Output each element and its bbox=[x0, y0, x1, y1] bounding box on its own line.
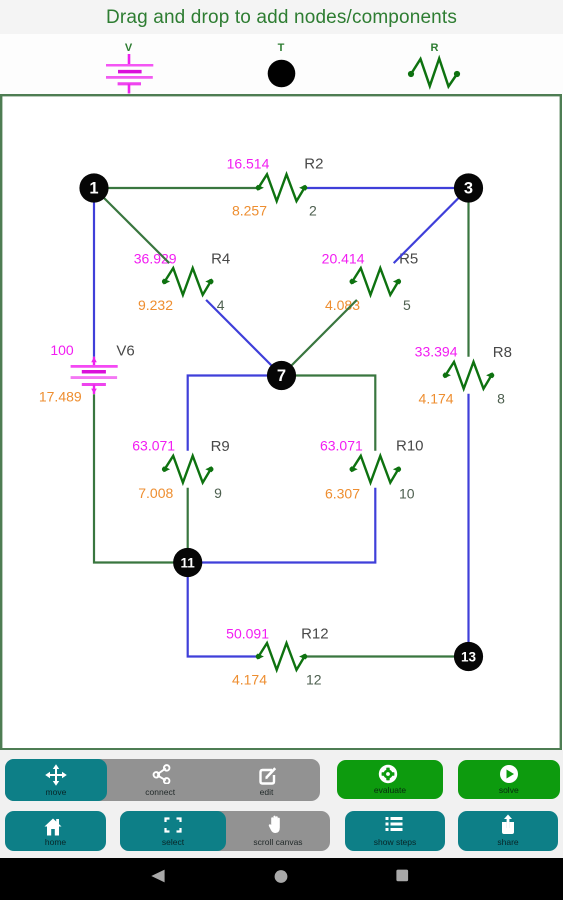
circuit canvas bbox=[0, 94, 563, 750]
button solve bbox=[458, 760, 560, 799]
wire node7 to R9 (blue) bbox=[188, 376, 282, 451]
svg-text:8: 8 bbox=[497, 390, 505, 406]
svg-text:11: 11 bbox=[181, 556, 196, 571]
svg-text:2: 2 bbox=[309, 203, 317, 219]
svg-text:1: 1 bbox=[89, 180, 98, 198]
button connect bbox=[107, 759, 213, 801]
nav home bbox=[275, 870, 288, 883]
nav recents bbox=[396, 870, 408, 882]
wire R2 to node3 (blue) bbox=[305, 187, 469, 189]
button scroll canvas bbox=[226, 811, 330, 852]
wire node11 to R12 (blue) bbox=[188, 563, 258, 657]
svg-text:100: 100 bbox=[50, 342, 74, 358]
svg-text:5: 5 bbox=[403, 297, 411, 313]
svg-text:10: 10 bbox=[399, 485, 415, 501]
svg-text:13: 13 bbox=[461, 650, 477, 665]
svg-text:33.394: 33.394 bbox=[415, 343, 458, 359]
android navigation bar bbox=[0, 858, 563, 900]
wire R8 to node13 (blue) bbox=[467, 394, 469, 657]
svg-text:R2: R2 bbox=[304, 156, 323, 173]
toolbar bbox=[0, 750, 563, 858]
svg-text:V6: V6 bbox=[116, 343, 134, 360]
svg-text:4.174: 4.174 bbox=[419, 390, 454, 406]
wire R5 to node7 (green diagonal) bbox=[282, 300, 357, 376]
button home bbox=[5, 811, 106, 852]
button select bbox=[120, 811, 226, 852]
svg-text:63.071: 63.071 bbox=[320, 437, 363, 453]
wire node7 to R10 (green) bbox=[282, 376, 376, 451]
svg-text:17.489: 17.489 bbox=[39, 389, 82, 405]
title bar bbox=[0, 0, 563, 34]
svg-text:7.008: 7.008 bbox=[138, 485, 173, 501]
svg-text:R10: R10 bbox=[396, 437, 424, 454]
button evaluate bbox=[337, 760, 443, 799]
svg-text:12: 12 bbox=[306, 672, 322, 688]
svg-text:R12: R12 bbox=[301, 625, 329, 642]
button group move/connect/edit bbox=[5, 759, 320, 801]
battery V6 bbox=[71, 357, 118, 394]
canvas border bbox=[1, 95, 561, 749]
svg-text:T: T bbox=[278, 42, 285, 54]
resistor R4 bbox=[162, 268, 214, 295]
svg-text:V: V bbox=[125, 42, 133, 54]
palette resistor icon bbox=[408, 59, 460, 87]
button group select/scroll bbox=[120, 811, 330, 852]
wire R9 to node11 (green) bbox=[187, 488, 189, 563]
palette battery icon bbox=[106, 54, 153, 94]
svg-text:R: R bbox=[431, 42, 439, 54]
node 11 bbox=[173, 548, 202, 577]
svg-text:4.174: 4.174 bbox=[232, 672, 267, 688]
svg-text:R4: R4 bbox=[211, 250, 230, 267]
svg-text:9: 9 bbox=[214, 485, 222, 501]
wire node3 to R8 (green) bbox=[467, 188, 469, 357]
resistor R9 bbox=[162, 456, 214, 483]
button edit bbox=[213, 759, 320, 801]
svg-text:6.307: 6.307 bbox=[325, 485, 360, 501]
node 13 bbox=[454, 642, 483, 671]
wire node3 to R5 (blue diagonal) bbox=[394, 188, 469, 263]
svg-text:63.071: 63.071 bbox=[132, 437, 175, 453]
wire node1 to R2 (green) bbox=[94, 187, 258, 189]
svg-text:R8: R8 bbox=[493, 344, 512, 361]
svg-text:9.232: 9.232 bbox=[138, 297, 173, 313]
node 1 bbox=[79, 173, 108, 202]
svg-text:50.091: 50.091 bbox=[226, 625, 269, 641]
wire R4 to node7 (blue diagonal) bbox=[206, 300, 281, 376]
svg-text:3: 3 bbox=[464, 180, 473, 198]
wire V6 to node11 (green) bbox=[94, 394, 188, 562]
button move bbox=[5, 759, 107, 801]
node 3 bbox=[454, 173, 483, 202]
resistor R8 bbox=[443, 362, 495, 389]
button show steps bbox=[345, 811, 445, 852]
wire R12 to node13 (green) bbox=[305, 655, 469, 657]
button share bbox=[458, 811, 558, 852]
svg-text:R9: R9 bbox=[211, 438, 230, 455]
nav back bbox=[151, 870, 164, 883]
node 7 bbox=[267, 361, 296, 390]
component palette bbox=[0, 34, 563, 94]
svg-text:R5: R5 bbox=[399, 250, 418, 267]
svg-text:36.929: 36.929 bbox=[134, 250, 177, 266]
resistor R2 bbox=[256, 174, 308, 201]
svg-text:4.083: 4.083 bbox=[325, 297, 360, 313]
wire node1 to R4 (green diagonal) bbox=[94, 188, 169, 263]
svg-text:16.514: 16.514 bbox=[227, 156, 270, 172]
palette terminal icon bbox=[268, 60, 296, 88]
svg-text:7: 7 bbox=[277, 367, 286, 385]
svg-text:20.414: 20.414 bbox=[322, 250, 365, 266]
resistor R10 bbox=[350, 456, 402, 483]
wire node1 to V6 (blue) bbox=[93, 188, 95, 357]
wire R10 to node11 (blue) bbox=[188, 488, 376, 563]
resistor R12 bbox=[256, 643, 308, 670]
svg-text:8.257: 8.257 bbox=[232, 203, 267, 219]
resistor R5 bbox=[350, 268, 402, 295]
